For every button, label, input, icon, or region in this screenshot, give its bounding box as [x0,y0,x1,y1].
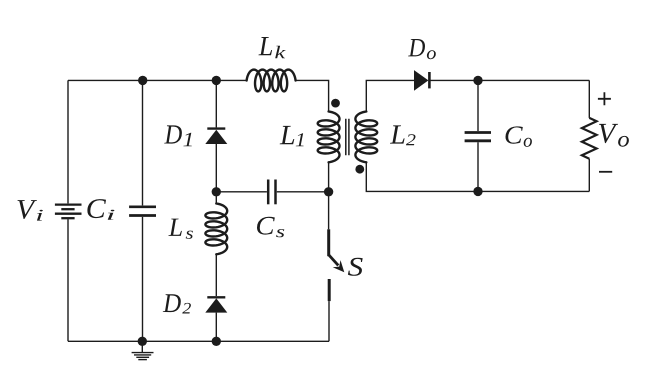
label minus [599,171,612,173]
inductor L_k [247,70,296,92]
wire Cs left [216,191,267,193]
node bottom-D2 [212,337,221,346]
capacitor C_s [268,180,275,205]
resistor Vo load [582,118,597,159]
inductor L_s [205,204,227,255]
label C_o [506,126,532,146]
wire node to Ls [215,192,217,204]
diode D1 [205,129,227,144]
node bottom-ground [138,337,147,346]
battery V1 source [55,205,82,219]
wire L2 top [366,80,414,111]
node top-Ci [138,76,147,85]
dot L2 polarity [355,165,364,174]
wire D1 branch upper [215,80,217,127]
node Co-bottom [473,187,482,196]
label plus [598,92,611,105]
wire Ls to D2 [215,254,217,296]
wire secondary bottom rail [366,162,589,191]
node Cs-left [212,187,221,196]
wire D1 to node [215,144,217,192]
diode Do [414,70,429,91]
label L_1 [280,126,304,146]
transformer secondary L2 [355,112,377,163]
wire bottom rail [68,340,329,342]
wire D2 to bottom rail [215,313,217,342]
capacitor C_i [129,207,156,216]
label V_o [599,124,629,147]
label D_o [408,39,436,59]
label C_i [87,199,114,220]
wire right rail lower [588,159,590,192]
label L_k [259,37,286,58]
wire L1 to Cs node [328,162,330,192]
wire Do to right corner [429,79,589,81]
label L_s [168,219,192,239]
transformer core [346,119,349,155]
wire Ci branch [142,80,144,341]
wire right rail upper [588,80,590,118]
transformer primary L1 [318,112,340,163]
wire Cs right [277,191,329,193]
label D_1 [164,125,192,146]
ground [132,341,154,359]
label S [348,258,363,276]
node top-D1 [212,76,221,85]
capacitor C_o [465,133,491,141]
label D_2 [163,294,191,313]
node Cs-right [324,187,333,196]
label C_s [257,217,284,238]
node Co-top [473,76,482,85]
wire Co branch [477,80,479,191]
diode D2 [205,297,227,312]
wire left rail [67,80,69,341]
label L_2 [390,125,415,145]
dot L1 polarity [331,99,340,108]
wire top rail left [68,79,247,81]
switch S [329,192,345,341]
label V_i [18,200,43,221]
wire Lk to L1 [296,80,329,111]
